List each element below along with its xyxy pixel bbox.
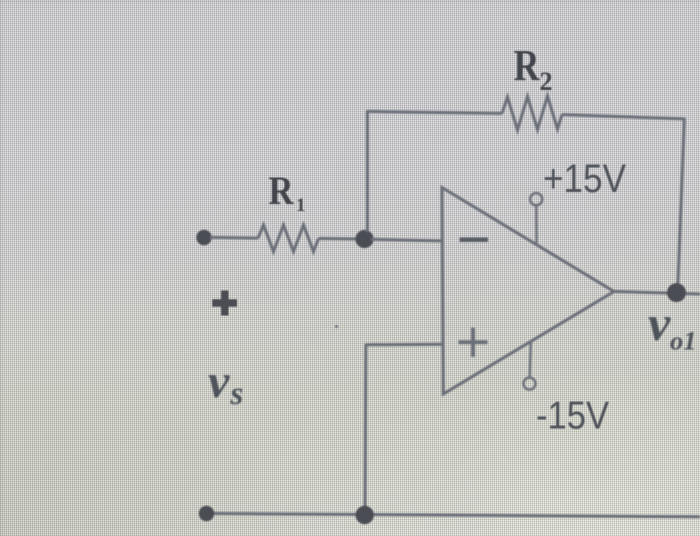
svg-text:o1: o1 [670, 326, 697, 356]
label R1 [269, 168, 306, 216]
resistor R1 [258, 225, 319, 252]
svg-text:s: s [230, 376, 244, 412]
wire: bottom ground rail [207, 513, 700, 516]
node: output dot [667, 283, 686, 302]
wire: top rail right of R2 [562, 115, 685, 119]
label vs (source voltage) [208, 355, 243, 412]
wire: ground riser (bottom junction up to non-inverting input) [364, 344, 368, 508]
svg-text:1: 1 [296, 195, 306, 216]
svg-text:-15V: -15V [536, 395, 609, 438]
wire: op-amp output to right edge [613, 291, 700, 294]
label R2 [514, 41, 553, 96]
node: bottom junction dot [356, 506, 374, 524]
symbol: source polarity minus [214, 448, 241, 455]
wire: junction to op-amp inverting input [371, 239, 442, 241]
wire: R1 to inverting-node junction [319, 237, 359, 241]
svg-text:R: R [269, 168, 295, 213]
node: input terminal dot [196, 230, 211, 245]
symbol: source polarity plus [212, 291, 237, 316]
node: junction at inverting input (dot) [355, 230, 373, 248]
label vo1 (output voltage) [648, 295, 697, 356]
wire: +15V pin stub into op-amp top edge [535, 206, 538, 244]
resistor R2 [502, 96, 562, 130]
symbol: non-inverting plus sign inside op-amp [459, 328, 488, 357]
wire: feedback left vertical (junction up to top rail) [366, 111, 369, 232]
wire: feedback right vertical (top rail down to output node) [678, 118, 685, 292]
wire: top rail left of R2 [366, 111, 502, 113]
terminal: -15V supply pin circle [524, 378, 536, 390]
svg-text:v: v [208, 355, 230, 408]
wire: input terminal to R1 [210, 236, 258, 240]
wire: -15V pin stub from op-amp bottom edge [530, 341, 531, 377]
node: bottom-left terminal dot [199, 506, 214, 521]
svg-text:v: v [648, 295, 671, 351]
dust speck [335, 325, 338, 328]
terminal: +15V supply pin circle [530, 193, 542, 205]
wire: non-inverting input horizontal [366, 343, 442, 347]
svg-text:2: 2 [540, 67, 553, 96]
op-amp U1 triangle [442, 188, 614, 395]
svg-text:+15V: +15V [543, 157, 626, 201]
svg-text:R: R [514, 41, 541, 90]
symbol: inverting input minus sign inside op-amp [460, 237, 489, 241]
